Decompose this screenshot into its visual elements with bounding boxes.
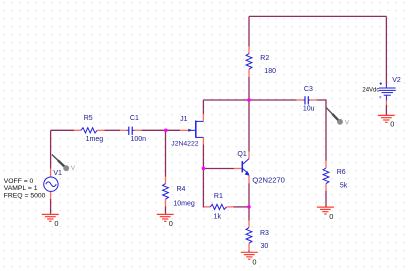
svg-text:R1: R1 (214, 193, 223, 200)
svg-text:J1: J1 (180, 116, 188, 123)
svg-text:0: 0 (169, 219, 173, 228)
svg-text:VOFF = 0: VOFF = 0 (4, 178, 34, 185)
svg-text:100n: 100n (131, 136, 147, 143)
svg-text:C1: C1 (130, 115, 139, 122)
svg-text:30: 30 (261, 243, 269, 250)
svg-text:R3: R3 (260, 230, 269, 237)
svg-text:1k: 1k (214, 214, 222, 221)
svg-text:5k: 5k (340, 182, 348, 189)
svg-text:10u: 10u (303, 106, 315, 113)
svg-text:0: 0 (252, 257, 256, 266)
svg-text:1meg: 1meg (86, 136, 104, 143)
svg-text:R4: R4 (177, 186, 186, 193)
svg-text:Q1: Q1 (237, 151, 246, 158)
svg-text:0: 0 (54, 219, 58, 228)
svg-text:V1: V1 (53, 170, 62, 177)
svg-text:R2: R2 (260, 55, 269, 62)
svg-text:24Vdc: 24Vdc (362, 86, 380, 93)
svg-text:R5: R5 (84, 115, 93, 122)
svg-text:R6: R6 (337, 169, 346, 176)
svg-text:0: 0 (329, 212, 333, 221)
svg-text:Q2N2270: Q2N2270 (252, 175, 285, 184)
svg-text:FREQ = 5000: FREQ = 5000 (4, 192, 46, 199)
svg-text:0: 0 (390, 120, 394, 129)
svg-text:V2: V2 (392, 77, 401, 84)
svg-text:C3: C3 (304, 86, 313, 93)
svg-text:VAMPL = 1: VAMPL = 1 (4, 185, 38, 192)
svg-text:180: 180 (264, 68, 276, 75)
svg-text:J2N4222: J2N4222 (171, 141, 198, 148)
svg-text:10meg: 10meg (173, 201, 195, 208)
